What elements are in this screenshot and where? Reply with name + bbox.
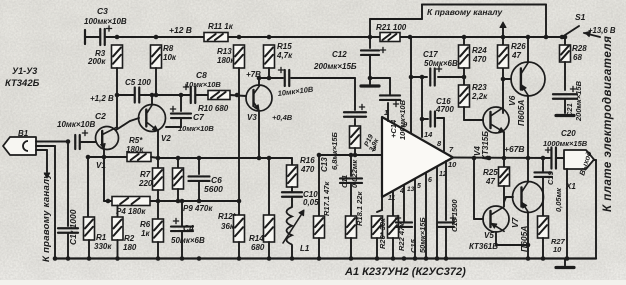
svg-text:КТ315Б: КТ315Б <box>481 131 490 160</box>
node bracket feed arrow <box>500 22 506 37</box>
svg-text:68: 68 <box>573 53 582 62</box>
svg-text:680: 680 <box>251 243 265 252</box>
svg-text:+13,6 В: +13,6 В <box>588 26 616 35</box>
resistor R2 <box>112 206 137 259</box>
ground near C12 <box>361 78 379 86</box>
resistor R10 <box>198 91 230 114</box>
capacitor C19 <box>535 158 564 216</box>
svg-text:10: 10 <box>553 245 562 254</box>
wire V6 collector down <box>527 96 529 182</box>
svg-text:220: 220 <box>138 179 153 188</box>
svg-text:R11 1к: R11 1к <box>208 22 234 31</box>
wire V5 base <box>474 158 483 219</box>
svg-text:1: 1 <box>384 108 388 117</box>
pin 1 C14 feed <box>384 103 388 121</box>
svg-text:0,05мк: 0,05мк <box>554 187 563 212</box>
svg-text:R25: R25 <box>483 168 498 177</box>
svg-text:П605А: П605А <box>516 100 526 126</box>
wire V5 collector <box>496 232 530 247</box>
transistor V3 <box>246 85 293 122</box>
node rail junctions <box>115 35 549 40</box>
capacitor C1 <box>58 142 78 259</box>
svg-text:L1: L1 <box>300 244 310 253</box>
label IC A1 caption <box>344 266 466 278</box>
wire feedback row <box>151 156 292 161</box>
svg-text:R20* 30к: R20* 30к <box>378 217 387 249</box>
svg-text:В1: В1 <box>18 129 29 138</box>
wire low bias row <box>104 157 241 203</box>
wire V4 collector <box>501 68 506 113</box>
svg-text:1000мк×15В: 1000мк×15В <box>543 139 588 148</box>
svg-text:R21 100: R21 100 <box>376 23 407 32</box>
resistor R22 <box>388 216 407 259</box>
capacitor C14 <box>380 78 407 140</box>
svg-text:С12: С12 <box>332 50 347 59</box>
svg-text:С2: С2 <box>95 111 106 121</box>
svg-text:10: 10 <box>448 160 457 169</box>
resistor R12 <box>218 95 245 259</box>
pin 13 feed <box>407 179 421 259</box>
wire ground bus <box>55 257 596 259</box>
wire X1 ground pin <box>566 169 568 259</box>
wire triangle bottom corner <box>377 197 382 212</box>
svg-text:С15: С15 <box>409 238 418 253</box>
svg-text:+0,4В: +0,4В <box>272 113 293 122</box>
resistor R25 <box>483 158 510 206</box>
svg-text:С18 1500: С18 1500 <box>450 199 459 232</box>
svg-text:R6: R6 <box>140 220 151 229</box>
svg-text:C3: C3 <box>97 6 108 16</box>
capacitor C11 <box>340 153 362 216</box>
svg-text:5: 5 <box>417 183 421 190</box>
svg-text:2,2к: 2,2к <box>471 92 488 101</box>
capacitor C18 <box>438 199 459 259</box>
wire V3 collector <box>246 70 269 85</box>
svg-text:R24: R24 <box>472 46 487 55</box>
transistor V7 <box>504 182 544 253</box>
pin 12 feed <box>437 167 447 259</box>
svg-text:К плате электродвигателя: К плате электродвигателя <box>602 36 614 212</box>
wire V4 emitter <box>503 132 505 158</box>
resistor R15 <box>264 42 294 78</box>
svg-text:180: 180 <box>123 243 137 252</box>
ground main symbol <box>556 259 574 268</box>
resistor R5 <box>126 136 151 162</box>
pin 14 feed <box>420 77 433 139</box>
svg-text:470: 470 <box>300 165 315 174</box>
svg-text:S1: S1 <box>575 12 586 22</box>
svg-text:47: 47 <box>511 51 521 60</box>
svg-text:11: 11 <box>388 195 395 202</box>
resistor R4 <box>112 197 150 217</box>
node ground bus junctions <box>53 256 570 261</box>
resistor R8 <box>151 44 177 95</box>
capacitor C3 <box>84 6 127 45</box>
svg-text:К правому каналу: К правому каналу <box>427 7 503 17</box>
wire V1 emitter row <box>88 149 127 159</box>
svg-text:5600: 5600 <box>204 184 223 194</box>
resistor R3 <box>87 45 123 95</box>
svg-text:Р4 180к: Р4 180к <box>116 207 146 216</box>
pin 7 output <box>449 145 454 154</box>
svg-text:R2: R2 <box>124 234 135 243</box>
connector B1 <box>3 129 36 155</box>
transistor V6 <box>507 62 545 126</box>
svg-text:4: 4 <box>399 188 404 195</box>
capacitor C8 <box>183 70 221 103</box>
svg-text:R18.1 22к: R18.1 22к <box>355 191 364 226</box>
wire C9 row <box>257 76 355 81</box>
pin 4 feed <box>399 185 404 222</box>
label +12 В <box>169 25 192 35</box>
svg-text:V3: V3 <box>247 113 257 122</box>
wire shield drop to bus <box>54 146 56 259</box>
svg-text:+12 В: +12 В <box>169 25 192 35</box>
svg-text:36к: 36к <box>221 222 235 231</box>
resistor R23 <box>459 77 489 120</box>
svg-text:50мк×6В: 50мк×6В <box>424 59 458 68</box>
wire V4 base <box>464 119 483 121</box>
wire V7 emitter to bus <box>527 213 529 259</box>
resistor R17.1 <box>314 155 332 259</box>
svg-text:КТ342Б: КТ342Б <box>5 78 40 89</box>
svg-text:С8: С8 <box>196 70 207 80</box>
svg-text:С20: С20 <box>561 129 576 138</box>
svg-text:С1* 1000: С1* 1000 <box>68 209 78 245</box>
wire output row +67В <box>453 144 564 160</box>
capacitor C5 <box>125 78 151 103</box>
wire V6 emitter to rail <box>527 37 529 62</box>
svg-text:С13: С13 <box>320 157 329 172</box>
svg-text:R23: R23 <box>472 83 487 92</box>
pin 11 feed <box>388 191 395 216</box>
svg-text:4,7к: 4,7к <box>276 51 293 60</box>
resistor R1 <box>84 155 113 259</box>
resistor R20 <box>372 216 388 259</box>
switch S1 <box>560 12 586 39</box>
svg-text:R17.1 47к: R17.1 47к <box>322 181 331 216</box>
capacitor C4 <box>171 201 205 259</box>
svg-text:10к: 10к <box>163 53 177 62</box>
svg-text:R8: R8 <box>163 44 174 53</box>
label К правому каналу (left) <box>41 173 52 262</box>
resistor R27 <box>538 216 566 259</box>
svg-text:R5*: R5* <box>129 136 143 145</box>
svg-text:180к: 180к <box>126 145 144 154</box>
inductor L1 <box>283 207 310 259</box>
svg-text:R14: R14 <box>249 234 264 243</box>
svg-text:470: 470 <box>472 55 487 64</box>
wire to right channel bracket <box>422 5 546 38</box>
resistor R18.1 <box>346 191 365 259</box>
capacitor C16 <box>422 97 454 127</box>
svg-text:С11: С11 <box>340 175 349 188</box>
resistor R7 <box>138 158 164 201</box>
svg-text:R7: R7 <box>140 170 151 179</box>
svg-text:А1 К237УН2 (К2УС372): А1 К237УН2 (К2УС372) <box>344 266 466 278</box>
svg-text:13: 13 <box>407 186 415 193</box>
svg-text:К правому каналу: К правому каналу <box>41 173 52 262</box>
svg-text:С4: С4 <box>183 223 194 233</box>
svg-text:С17: С17 <box>423 50 438 59</box>
svg-text:200к: 200к <box>87 57 106 66</box>
label К плате электродвигателя <box>602 36 614 212</box>
wire V6 base <box>503 78 511 80</box>
svg-text:14: 14 <box>424 130 433 139</box>
capacitor C13 <box>320 78 366 172</box>
op-amp A1 triangle <box>382 117 453 197</box>
resistor R24 <box>459 37 488 77</box>
wire bracket feed from R21 node <box>370 19 422 37</box>
svg-text:10мк×10В: 10мк×10В <box>57 120 95 129</box>
transistor V2 <box>139 95 172 158</box>
wire V1 base-V2 <box>116 118 139 130</box>
pin 3 <box>0 0 1 1</box>
capacitor C17 <box>423 50 458 86</box>
svg-text:R26: R26 <box>511 42 526 51</box>
svg-text:V2: V2 <box>161 134 171 143</box>
svg-text:+С14: +С14 <box>389 119 398 138</box>
svg-text:47: 47 <box>485 177 495 186</box>
svg-text:R12*: R12* <box>218 212 237 221</box>
transistor V4 <box>473 107 509 160</box>
svg-text:50мк×15Б: 50мк×15Б <box>418 217 427 253</box>
capacitor C2 <box>57 111 106 149</box>
pin 9 feed <box>403 37 411 133</box>
resistor R16 <box>287 156 316 187</box>
svg-text:50мк×6В: 50мк×6В <box>171 236 205 245</box>
resistor R9 <box>173 158 214 213</box>
wire V1 collector <box>116 95 118 128</box>
wire top supply rail <box>85 30 562 44</box>
capacitor C21 <box>553 80 583 122</box>
resistor R21 <box>376 23 407 42</box>
transistor V5 <box>469 206 509 251</box>
wire supply input +13,6 В <box>584 26 616 37</box>
svg-text:С5 100: С5 100 <box>125 78 151 87</box>
svg-text:180к: 180к <box>217 56 235 65</box>
ground near C21 <box>556 114 574 117</box>
svg-text:V5: V5 <box>484 231 494 240</box>
capacitor C7 <box>166 95 214 133</box>
node to right channel arrow <box>44 150 50 178</box>
capacitor C12 <box>313 37 386 78</box>
svg-text:6: 6 <box>428 177 432 184</box>
svg-text:R1: R1 <box>96 233 107 242</box>
resistor R11 <box>204 22 234 42</box>
svg-text:R16: R16 <box>300 156 315 165</box>
svg-text:+67В: +67В <box>504 144 525 154</box>
wire C17 row <box>409 75 467 80</box>
svg-text:4700: 4700 <box>435 105 454 114</box>
capacitor C6 <box>189 158 224 201</box>
svg-text:100мк×10В: 100мк×10В <box>84 17 127 26</box>
svg-text:10мк×10В: 10мк×10В <box>185 80 221 89</box>
resistor R14 <box>249 158 275 259</box>
svg-text:У1-У3: У1-У3 <box>12 66 37 76</box>
capacitor C9 <box>277 67 314 98</box>
svg-text:330к: 330к <box>94 242 112 251</box>
svg-text:С7: С7 <box>193 112 205 122</box>
svg-text:Р9 470к: Р9 470к <box>183 204 213 213</box>
connector X1 <box>564 150 594 191</box>
svg-text:R28: R28 <box>572 44 587 53</box>
wire C12 gnd to C14 <box>368 76 390 81</box>
wire B1 output leads <box>36 139 70 150</box>
capacitor C10 <box>282 187 319 207</box>
label +1,2 В <box>90 94 114 103</box>
wire V3 emitter <box>258 111 260 158</box>
label transistor group У1-У3 <box>5 66 40 89</box>
svg-text:КТ361Б: КТ361Б <box>469 242 498 251</box>
svg-text:0,022мк: 0,022мк <box>350 159 359 188</box>
svg-text:1к: 1к <box>141 229 150 238</box>
wire X1 tip drop <box>594 160 596 259</box>
svg-text:0,05: 0,05 <box>303 198 319 207</box>
resistor R13 <box>217 45 245 95</box>
svg-text:200мк×15Б: 200мк×15Б <box>313 62 357 71</box>
svg-text:+1,2 В: +1,2 В <box>90 94 114 103</box>
wire pin3 row <box>317 144 382 157</box>
label К правому каналу (top) <box>427 7 503 17</box>
svg-text:R15: R15 <box>277 42 292 51</box>
svg-text:R13: R13 <box>217 47 232 56</box>
resistor R19 <box>350 119 381 153</box>
resistor R6 <box>140 201 164 259</box>
svg-text:6,8мк×15Б: 6,8мк×15Б <box>330 132 339 170</box>
resistor R26 <box>498 37 527 68</box>
pin 8 feed <box>437 118 444 151</box>
wire preamp coupling row <box>115 93 246 98</box>
resistor R28 <box>560 35 588 90</box>
capacitor C20 <box>543 129 588 169</box>
svg-text:С19: С19 <box>546 170 555 185</box>
transistor V1 <box>96 127 119 171</box>
pin 5 feed <box>426 173 432 259</box>
svg-text:10мк×10В: 10мк×10В <box>178 124 214 133</box>
capacitor C15 <box>395 215 427 253</box>
pin 10 feed <box>446 160 457 220</box>
